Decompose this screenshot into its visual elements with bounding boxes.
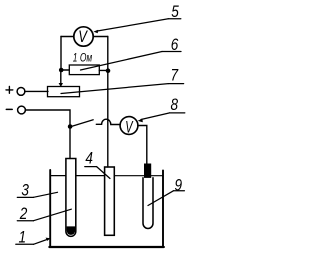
- svg-text:7: 7: [171, 66, 180, 85]
- svg-text:8: 8: [171, 96, 179, 115]
- svg-text:5: 5: [171, 3, 179, 22]
- svg-text:2: 2: [19, 205, 28, 224]
- svg-text:4: 4: [85, 149, 93, 168]
- svg-text:1 Ом: 1 Ом: [73, 52, 92, 65]
- svg-text:3: 3: [21, 181, 29, 200]
- svg-text:9: 9: [175, 176, 183, 195]
- svg-text:1: 1: [19, 228, 27, 247]
- svg-text:6: 6: [171, 36, 179, 55]
